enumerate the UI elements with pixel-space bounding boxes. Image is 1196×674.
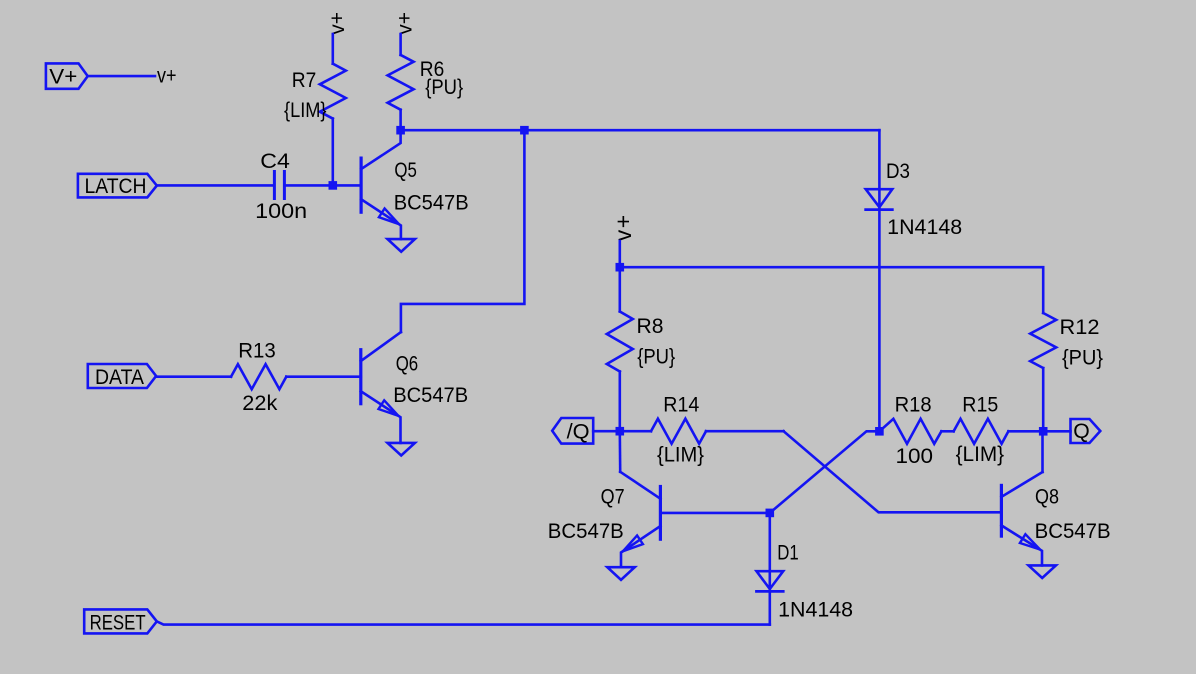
svg-text:Q6: Q6 [396,353,419,376]
transistor Q7 emitter [621,526,660,567]
svg-text:1N4148: 1N4148 [778,598,853,621]
value {LIM} (R7) [284,99,327,122]
svg-text:{PU}: {PU} [637,345,675,368]
svg-text:R13: R13 [238,339,275,362]
svg-text:v+: v+ [157,65,177,88]
svg-text:LATCH: LATCH [85,175,147,198]
node junction D3/R18 [875,427,884,436]
svg-text:BC547B: BC547B [394,192,469,215]
wire crossover to Q7 base junction [770,431,880,513]
wire V+ rail to R12 [620,267,1043,313]
node junction C4/R7/Q5 [329,181,338,190]
svg-text:v+: v+ [394,12,417,35]
value 22k [242,392,278,415]
wire D1 to RESET rail [768,591,771,624]
label R8 [637,315,664,338]
label R12 [1060,316,1100,339]
port flag DATA [88,364,156,389]
resistor R8 [607,267,633,431]
value BC547B (Q5) [394,192,469,215]
wire /Q down to Q7 collector [618,431,621,472]
wire R14 to crossover [706,430,784,433]
svg-text:BC547B: BC547B [393,384,468,407]
value {LIM} (R15) [956,443,1005,466]
value 1N4148 (D1) [778,598,853,621]
transistor Q8 collector [1001,472,1042,497]
resistor R7 [320,34,346,185]
svg-text:V+: V+ [49,65,77,88]
node junction /Q [616,427,625,436]
svg-text:R18: R18 [895,394,932,417]
svg-text:100n: 100n [255,200,307,223]
resistor R6 [388,34,414,130]
node junction V+ rail [616,263,625,272]
transistor Q8 base bar [1000,485,1003,536]
port flag Q [1071,419,1101,443]
value 100 [896,445,934,468]
wire Q5 collector rail [401,129,880,132]
svg-text:DATA: DATA [95,366,144,389]
svg-text:R7: R7 [292,69,317,92]
port flag RESET [84,609,157,634]
svg-text:v+: v+ [610,213,636,241]
wire D3 cathode to junction [878,210,881,432]
label R7 [292,69,317,92]
node junction Q7 base/D1 [766,509,775,518]
value {LIM} (R14) [657,443,704,466]
wire rail down to D3 [878,130,881,209]
transistor Q5 emitter arrow [379,209,399,225]
svg-text:100: 100 [896,445,934,468]
power symbol v+ (mid rail) [610,213,636,241]
port flag /Q [552,418,593,444]
port flag LATCH [78,174,157,198]
svg-text:Q7: Q7 [601,485,625,508]
svg-text:RESET: RESET [90,611,146,634]
label R13 [238,339,275,362]
svg-text:R15: R15 [962,394,998,417]
svg-text:R14: R14 [663,393,699,416]
transistor Q6 emitter arrow [379,400,399,416]
transistor Q5 base bar [360,158,363,212]
wire rail down to Q6 collector [401,130,525,332]
svg-text:Q5: Q5 [394,159,417,182]
svg-text:BC547B: BC547B [1035,520,1111,543]
net label v+ [157,65,177,88]
label Q7 [601,485,625,508]
value {PU} (R12) [1062,347,1103,370]
value BC547B (Q6) [393,384,468,407]
label Q5 [394,159,417,182]
ground (Q7) [607,567,634,580]
svg-text:D1: D1 [777,542,799,565]
resistor R14 [620,419,706,444]
ground (Q8) [1029,565,1056,578]
wire V+ to net label v+ [88,75,155,78]
node junction rail/Q6 collector [520,126,529,135]
svg-text:{LIM}: {LIM} [284,99,327,122]
svg-text:{LIM}: {LIM} [956,443,1005,466]
wire junction to D1 [768,513,771,592]
transistor Q8 emitter arrow [1020,534,1040,549]
label Q8 [1035,485,1059,508]
label C4 [260,150,290,173]
ground (Q6) [388,443,415,456]
svg-text:1N4148: 1N4148 [887,216,962,239]
power symbol v+ (R6) [394,12,417,35]
transistor Q7 collector [620,472,660,499]
svg-text:22k: 22k [242,392,278,415]
resistor R18 [879,419,953,444]
value BC547B (Q8) [1035,520,1111,543]
svg-text:Q8: Q8 [1035,485,1059,508]
svg-text:/Q: /Q [567,420,590,443]
resistor R12 [1030,313,1056,431]
label R18 [895,394,932,417]
wire crossover to Q8 base [784,431,1002,512]
diode D1 [757,571,784,591]
svg-text:BC547B: BC547B [548,520,624,543]
wire C4 to Q5 base [284,184,361,187]
capacitor C4 [274,172,284,199]
ground (Q5) [388,239,415,252]
svg-text:{PU}: {PU} [1062,347,1103,370]
wire /Q to junction [593,430,620,433]
wire v+ down to junction [618,241,621,267]
wire DATA to R13 [156,375,231,378]
transistor Q6 base bar [359,350,362,404]
wire Q down to Q8 collector [1041,431,1044,472]
transistor Q6 collector [361,332,401,361]
wire junction to Q flag [1043,430,1070,433]
power symbol v+ (R7) [326,12,349,35]
svg-text:R12: R12 [1060,316,1100,339]
diode D3 [866,189,893,209]
svg-text:R8: R8 [637,315,664,338]
wire Q7 base [660,512,769,515]
transistor Q6 emitter [361,391,401,443]
label R15 [962,394,998,417]
wire RESET rail [157,621,770,624]
svg-text:C4: C4 [260,150,290,173]
svg-text:D3: D3 [886,160,910,183]
label D3 [886,160,910,183]
resistor R15 [954,419,1044,444]
wire LATCH to C4 [157,184,273,187]
transistor Q7 emitter arrow [623,536,643,552]
svg-text:{LIM}: {LIM} [657,443,704,466]
node junction R6/Q5 collector [396,126,405,135]
label D1 [777,542,799,565]
value 1N4148 (D3) [887,216,962,239]
label Q6 [396,353,419,376]
value 100n [255,200,307,223]
wire R13 to Q6 base [286,375,361,378]
port flag V+ [46,63,88,88]
transistor Q5 collector [361,130,401,169]
label R14 [663,393,699,416]
value {PU} (R8) [637,345,675,368]
transistor Q7 base bar [659,487,662,540]
transistor Q5 emitter [361,199,401,239]
resistor R13 [231,364,286,389]
node junction Q [1039,427,1048,436]
value BC547B (Q7) [548,520,624,543]
svg-text:Q: Q [1073,420,1090,443]
label R6 [420,58,445,81]
svg-text:v+: v+ [326,12,349,35]
svg-text:{PU}: {PU} [425,76,463,99]
transistor Q8 emitter [1001,525,1042,565]
value {PU} (R6) [425,76,463,99]
